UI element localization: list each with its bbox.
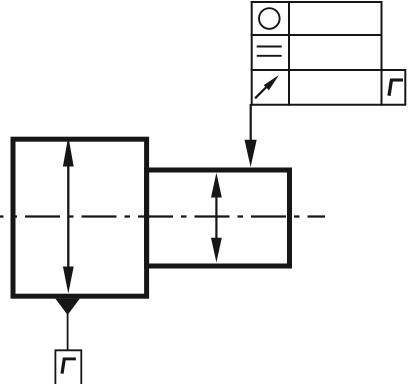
dimension arrowhead big top — [63, 136, 74, 166]
dimension arrowhead small top — [211, 173, 222, 198]
feature control frame table — [251, 1, 406, 106]
dimension line small step — [215, 185, 217, 250]
large rectangle (big step outline) — [13, 139, 147, 296]
datum letter bottom — [62, 358, 76, 374]
circularity symbol — [259, 8, 280, 29]
radial runout symbol — [255, 75, 279, 98]
leader line — [250, 104, 252, 145]
datum letter in frame — [389, 79, 403, 96]
datum triangle — [55, 299, 79, 315]
datum frame box — [55, 350, 81, 384]
leader arrowhead — [245, 140, 257, 167]
datum stem — [67, 314, 69, 350]
dimension arrowhead big bottom — [63, 267, 74, 294]
parallelism symbol — [257, 47, 282, 56]
dimension arrowhead small bottom — [211, 238, 222, 263]
centerline (axis, dash-dot) — [0, 215, 325, 217]
dimension line big step — [67, 150, 69, 282]
small rectangle (small step outline) — [147, 170, 290, 266]
